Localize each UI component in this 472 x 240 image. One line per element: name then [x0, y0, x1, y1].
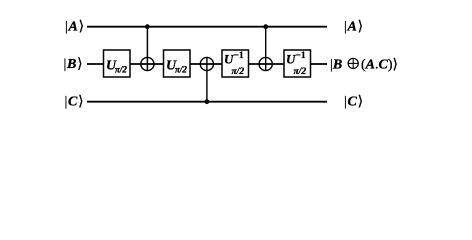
- node control dot on A (second): [263, 24, 268, 29]
- wire A: [87, 26, 327, 28]
- gate box U1 U_pi/2: [104, 50, 131, 77]
- svg-text:|C⟩: |C⟩: [344, 95, 364, 110]
- svg-text:−1: −1: [296, 51, 306, 61]
- XOR target 3: [259, 57, 272, 70]
- node control dot on C: [205, 99, 210, 104]
- wire vertical control A to XOR3: [265, 27, 267, 71]
- svg-text:|C⟩: |C⟩: [65, 95, 85, 110]
- svg-text:π/2: π/2: [232, 67, 245, 77]
- svg-text:−1: −1: [234, 51, 244, 61]
- svg-text:π/2: π/2: [294, 67, 307, 77]
- wire vertical control C to XOR2: [206, 57, 208, 101]
- wire vertical control A to XOR1: [146, 27, 148, 71]
- wire B: [87, 63, 327, 65]
- svg-text:|B⟩: |B⟩: [64, 57, 84, 72]
- svg-text:U: U: [224, 52, 234, 67]
- XOR target 1: [141, 57, 154, 70]
- svg-text:π/2: π/2: [175, 65, 187, 75]
- node control dot on A (first): [145, 24, 150, 29]
- svg-text:U: U: [286, 52, 296, 67]
- svg-text:|A⟩: |A⟩: [65, 20, 85, 35]
- svg-text:|B: |B: [330, 58, 342, 73]
- svg-text:π/2: π/2: [115, 65, 127, 75]
- gate box U2 U_pi/2: [164, 50, 191, 77]
- svg-text:|A⟩: |A⟩: [344, 20, 364, 35]
- svg-text:(A.C)⟩: (A.C)⟩: [361, 58, 398, 73]
- XOR target 2: [200, 57, 213, 70]
- wire C: [87, 101, 327, 103]
- gate box U4 U^-1_pi/2: [284, 50, 311, 77]
- xor symbol in label: [348, 58, 358, 68]
- gate box U3 U^-1_pi/2: [222, 50, 249, 77]
